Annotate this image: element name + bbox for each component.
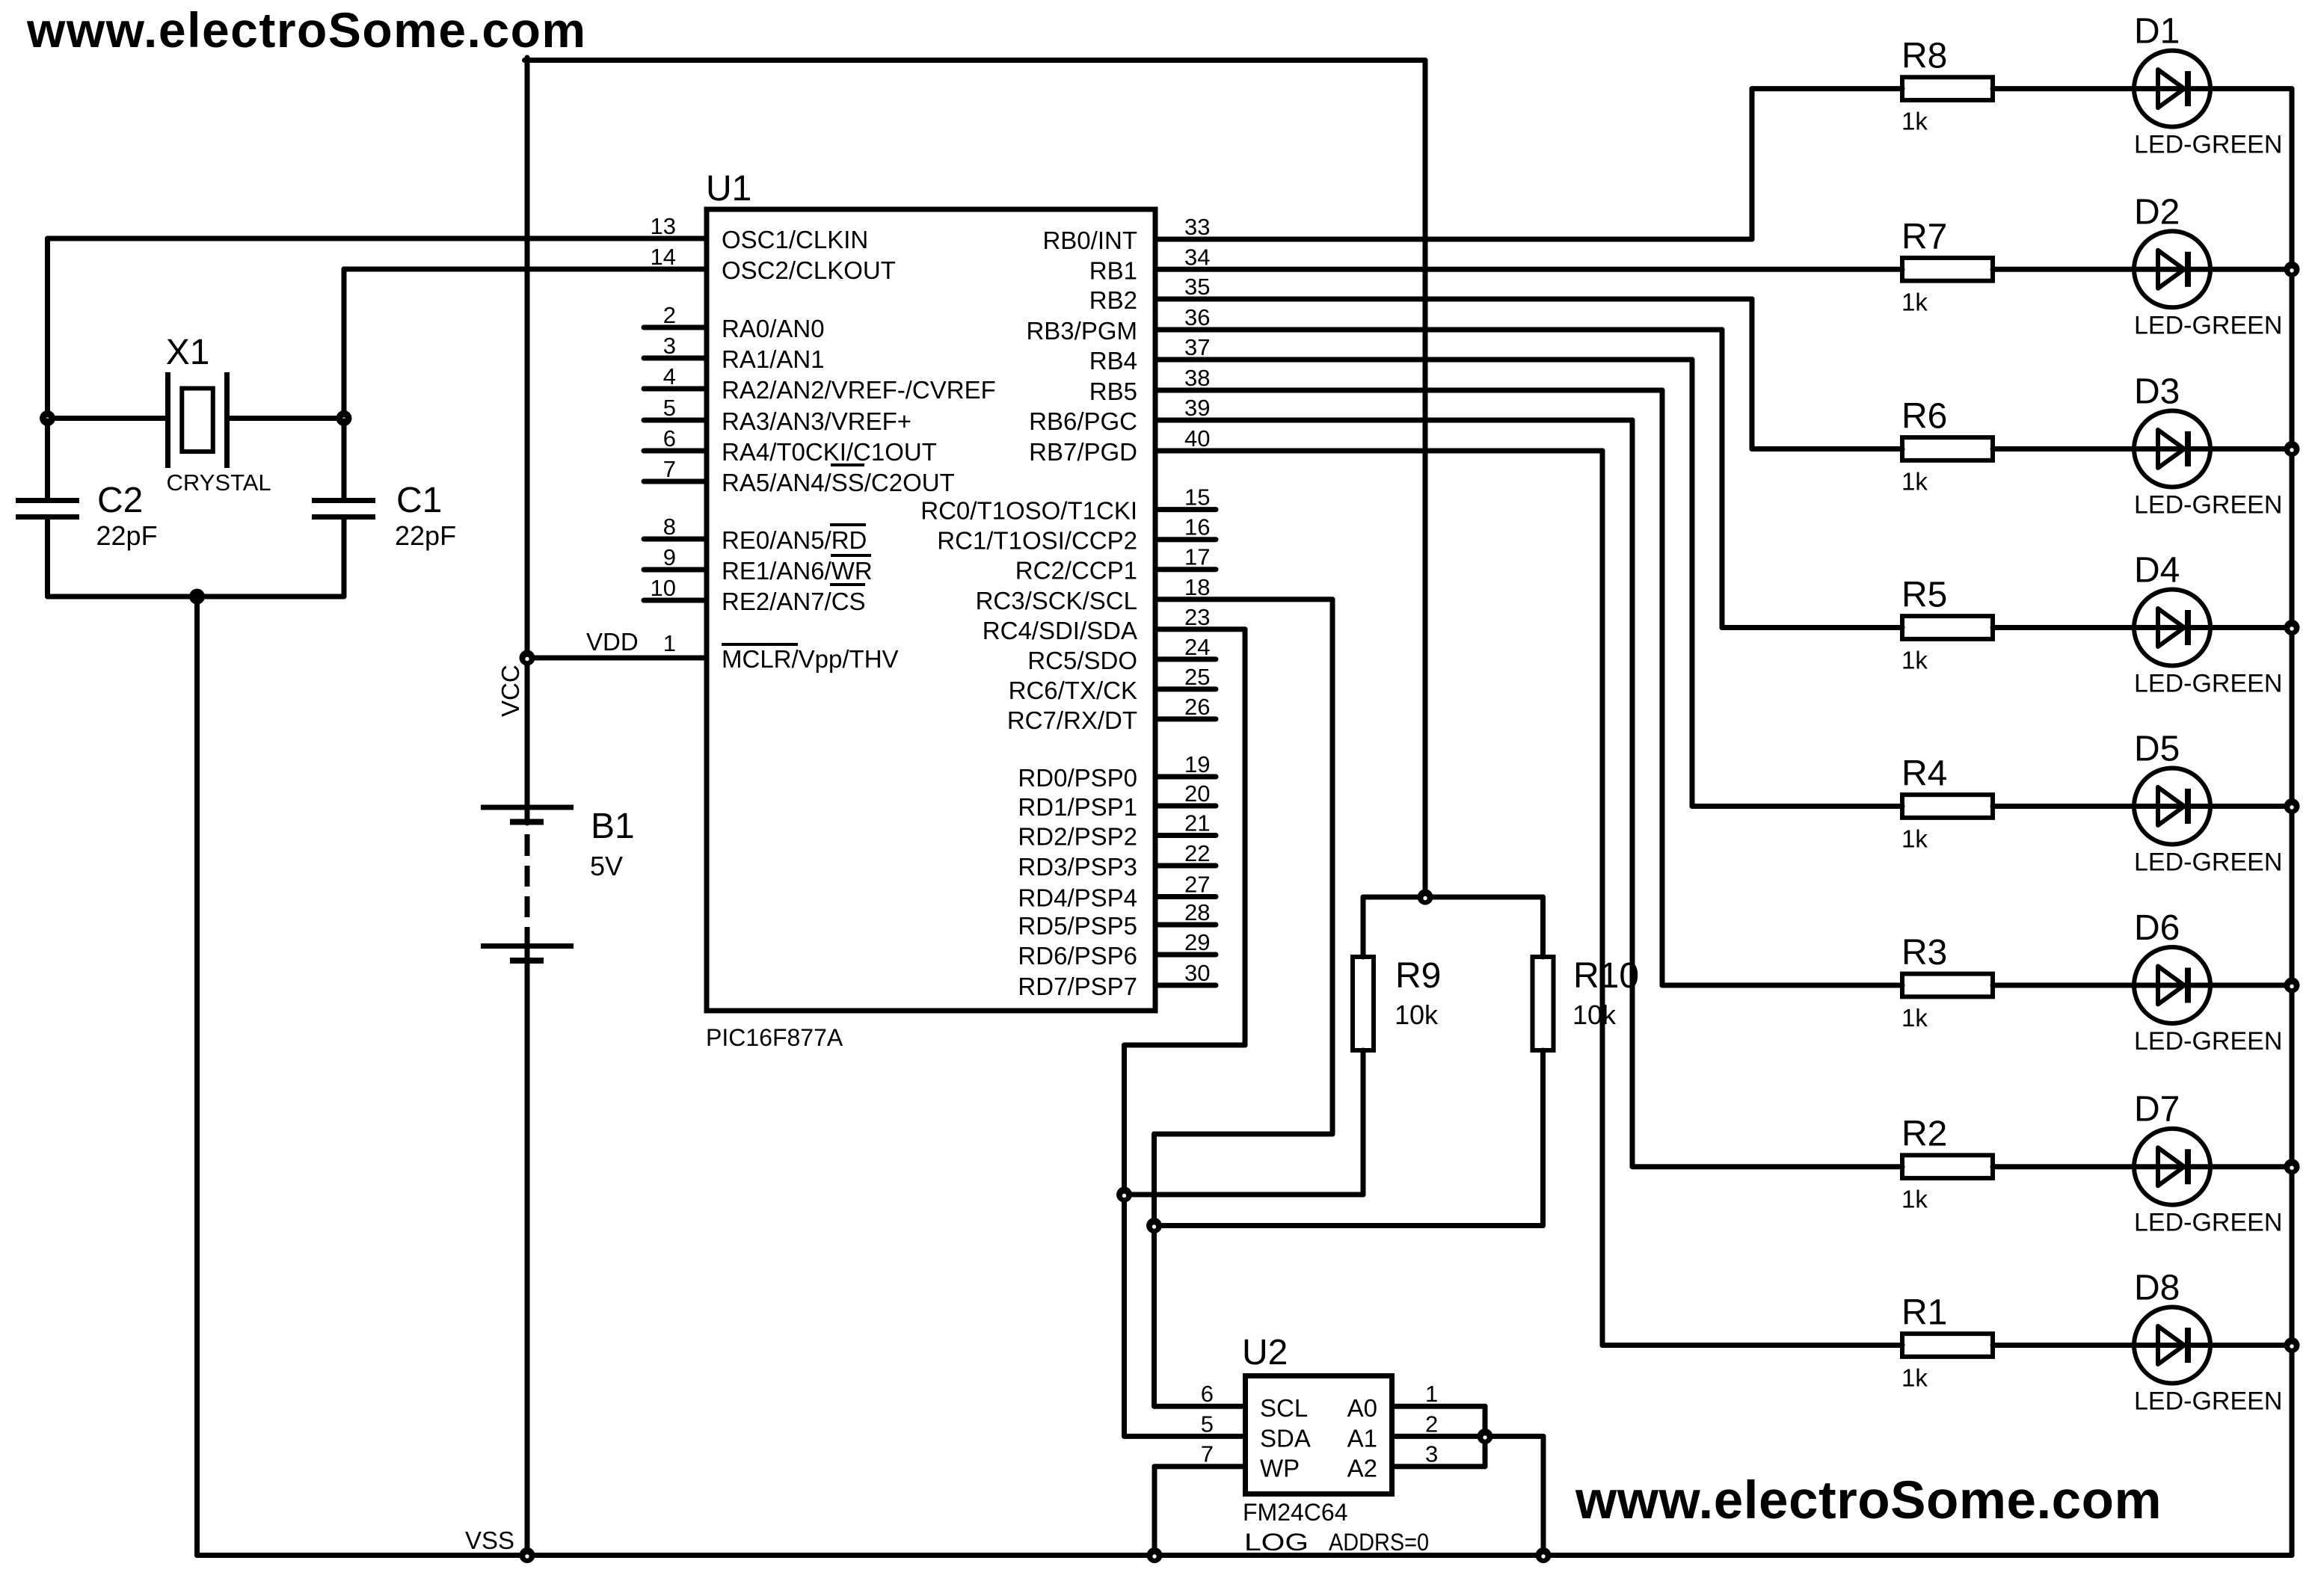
svg-text:1k: 1k <box>1901 1364 1928 1392</box>
wire pin 40 dropper <box>1600 451 1605 1346</box>
svg-text:1k: 1k <box>1901 1186 1928 1213</box>
svg-text:RB1: RB1 <box>1089 256 1137 284</box>
svg-text:RB4: RB4 <box>1089 347 1137 375</box>
svg-text:MCLR/Vpp/THV: MCLR/Vpp/THV <box>722 645 899 673</box>
svg-text:4: 4 <box>663 363 676 389</box>
wire pin 8 stub <box>644 537 704 542</box>
resistor R3 <box>1902 974 1993 997</box>
svg-text:RA0/AN0: RA0/AN0 <box>722 315 825 342</box>
svg-text:23: 23 <box>1184 604 1210 630</box>
svg-text:RA2/AN2/VREF-/CVREF: RA2/AN2/VREF-/CVREF <box>722 376 996 404</box>
wire R2 to D7 <box>1993 1164 2136 1169</box>
svg-text:1: 1 <box>663 630 676 656</box>
svg-text:LED-GREEN: LED-GREEN <box>2134 131 2282 159</box>
resistor R5 <box>1902 616 1993 639</box>
svg-text:RD4/PSP4: RD4/PSP4 <box>1018 884 1137 912</box>
node battery on VSS <box>520 1547 535 1563</box>
wire pin 38 dropper <box>1660 390 1665 985</box>
node A pins on VSS <box>1536 1547 1552 1563</box>
wire pin 19 stub <box>1158 774 1217 780</box>
wire pin 15 stub <box>1158 507 1217 512</box>
wire pin 2 stub <box>644 325 704 330</box>
svg-text:22pF: 22pF <box>96 520 158 551</box>
svg-text:RD7/PSP7: RD7/PSP7 <box>1018 973 1137 1000</box>
svg-text:33: 33 <box>1184 214 1210 240</box>
wire crystal right <box>230 416 344 421</box>
svg-text:38: 38 <box>1184 365 1210 391</box>
node R9 SDA junction <box>1116 1187 1132 1203</box>
wire VDD to pin 1 <box>527 656 704 661</box>
svg-text:RA4/T0CKI/C1OUT: RA4/T0CKI/C1OUT <box>722 438 937 466</box>
svg-text:1k: 1k <box>1901 825 1928 853</box>
svg-text:R7: R7 <box>1901 217 1947 256</box>
svg-text:RD6/PSP6: RD6/PSP6 <box>1018 942 1137 970</box>
svg-text:RC0/T1OSO/T1CKI: RC0/T1OSO/T1CKI <box>920 497 1137 525</box>
wire R1 row left <box>1602 1343 1902 1348</box>
svg-text:13: 13 <box>651 213 676 239</box>
wire pin 5 stub <box>644 418 704 423</box>
capacitor C2 <box>16 419 79 597</box>
wire VSS rail <box>197 1553 2293 1558</box>
svg-text:R5: R5 <box>1901 576 1947 615</box>
svg-text:RC2/CCP1: RC2/CCP1 <box>1015 557 1137 585</box>
overline CS in RE2 <box>830 583 865 586</box>
wire R4 row left <box>1692 804 1902 809</box>
svg-text:RB2: RB2 <box>1089 286 1137 314</box>
node WP on VSS <box>1147 1547 1163 1563</box>
svg-text:RA5/AN4/SS/C2OUT: RA5/AN4/SS/C2OUT <box>722 469 955 496</box>
wire WP to VSS <box>1152 1467 1157 1556</box>
wire crystal ground rail <box>48 594 345 600</box>
wire R7 row left <box>1158 267 1903 272</box>
wire pin 3 stub <box>644 356 704 361</box>
wire pin 16 stub <box>1158 537 1217 542</box>
svg-text:27: 27 <box>1184 872 1210 898</box>
overline SS in RA5 <box>831 463 864 466</box>
svg-text:17: 17 <box>1184 544 1210 570</box>
svg-text:RC7/RX/DT: RC7/RX/DT <box>1007 706 1137 734</box>
wire R6 to D3 <box>1993 446 2136 452</box>
wire SCL jog <box>1155 1132 1333 1137</box>
svg-text:15: 15 <box>1184 484 1210 511</box>
svg-text:B1: B1 <box>591 807 635 846</box>
node OSC2/C1 <box>336 410 352 426</box>
svg-text:A2: A2 <box>1347 1455 1377 1482</box>
svg-text:U2: U2 <box>1242 1333 1288 1372</box>
svg-text:RD3/PSP3: RD3/PSP3 <box>1018 853 1137 881</box>
wire R10 bottom lead <box>1540 1050 1546 1226</box>
resistor R2 <box>1902 1155 1993 1178</box>
wire pin 33 horizontal <box>1158 237 1753 242</box>
svg-text:R3: R3 <box>1901 933 1947 973</box>
svg-text:RB6/PGC: RB6/PGC <box>1029 407 1137 435</box>
svg-text:7: 7 <box>1201 1441 1214 1467</box>
svg-text:28: 28 <box>1184 899 1210 925</box>
svg-text:39: 39 <box>1184 395 1210 421</box>
wire pin 35 horizontal <box>1158 297 1753 302</box>
wire SCL into U2 pin 6 <box>1155 1404 1243 1409</box>
svg-text:FM24C64: FM24C64 <box>1243 1499 1348 1526</box>
svg-text:VCC: VCC <box>496 665 524 717</box>
wire pin 36 horizontal <box>1158 327 1723 333</box>
svg-text:3: 3 <box>1425 1441 1438 1467</box>
svg-text:5: 5 <box>663 395 676 421</box>
svg-text:D6: D6 <box>2134 908 2180 948</box>
svg-text:RC3/SCK/SCL: RC3/SCK/SCL <box>976 587 1137 614</box>
resistor R6 <box>1902 437 1993 460</box>
svg-text:1k: 1k <box>1901 468 1928 496</box>
node R10 SCL junction <box>1146 1218 1162 1233</box>
svg-text:LED-GREEN: LED-GREEN <box>2134 848 2282 877</box>
node crystal ground <box>189 589 205 605</box>
svg-text:1k: 1k <box>1901 647 1928 674</box>
wire pin 4 stub <box>644 386 704 392</box>
svg-text:6: 6 <box>1201 1381 1214 1407</box>
crystal X1 <box>168 372 227 468</box>
svg-text:29: 29 <box>1184 929 1210 955</box>
svg-text:R1: R1 <box>1901 1293 1947 1333</box>
svg-text:RC6/TX/CK: RC6/TX/CK <box>1009 677 1137 704</box>
wire pin 37 dropper <box>1690 360 1695 807</box>
svg-text:CRYSTAL: CRYSTAL <box>167 469 271 496</box>
svg-text:1k: 1k <box>1901 288 1928 315</box>
svg-text:SDA: SDA <box>1260 1424 1311 1452</box>
led D5 <box>2134 768 2292 845</box>
ic U2 FM24C64 body <box>1246 1376 1392 1494</box>
node D3 on bus <box>2284 441 2300 457</box>
svg-text:RB7/PGD: RB7/PGD <box>1029 438 1137 466</box>
svg-text:RA3/AN3/VREF+: RA3/AN3/VREF+ <box>722 407 911 435</box>
svg-text:A0: A0 <box>1347 1394 1377 1422</box>
svg-text:24: 24 <box>1184 634 1210 660</box>
wire R8 to D1 <box>1993 86 2136 91</box>
wire R5 to D4 <box>1993 625 2136 630</box>
svg-text:3: 3 <box>663 333 676 359</box>
svg-text:34: 34 <box>1184 244 1210 270</box>
wire R6 row left <box>1752 446 1902 452</box>
wire VCC vertical from top rail to battery <box>525 58 530 823</box>
svg-text:R8: R8 <box>1901 37 1947 76</box>
svg-text:OSC1/CLKIN: OSC1/CLKIN <box>722 226 868 253</box>
wire pin 6 stub <box>644 449 704 454</box>
wire pin 39 dropper <box>1630 420 1635 1167</box>
node VCC pull-up rail <box>1418 890 1433 905</box>
svg-text:36: 36 <box>1184 304 1210 330</box>
svg-text:2: 2 <box>663 302 676 328</box>
led D8 <box>2134 1307 2292 1384</box>
svg-text:RD1/PSP1: RD1/PSP1 <box>1018 793 1137 821</box>
svg-text:RD5/PSP5: RD5/PSP5 <box>1018 912 1137 940</box>
svg-text:PIC16F877A: PIC16F877A <box>706 1024 843 1051</box>
node OSC1/C2 <box>40 410 55 426</box>
svg-text:RE1/AN6/WR: RE1/AN6/WR <box>722 557 873 585</box>
wire pin 35 dropper <box>1750 299 1755 449</box>
svg-text:OSC2/CLKOUT: OSC2/CLKOUT <box>722 256 896 284</box>
svg-text:VSS: VSS <box>465 1526 514 1554</box>
svg-text:LOG: LOG <box>1244 1529 1309 1556</box>
svg-text:LED-GREEN: LED-GREEN <box>2134 1027 2282 1056</box>
led D3 <box>2134 411 2292 487</box>
svg-text:5V: 5V <box>590 851 623 881</box>
node A1 junction <box>1478 1429 1493 1444</box>
wire crystal left <box>48 416 166 421</box>
wire R10 top lead <box>1540 897 1546 957</box>
svg-text:10k: 10k <box>1572 999 1617 1030</box>
wire pin 17 stub <box>1158 567 1217 572</box>
svg-text:R6: R6 <box>1901 397 1947 437</box>
svg-text:5: 5 <box>1201 1411 1214 1437</box>
svg-text:22: 22 <box>1184 840 1210 866</box>
svg-text:16: 16 <box>1184 514 1210 540</box>
wire LED cathode bus <box>2290 89 2295 1556</box>
wire SDA jog <box>1125 1043 1246 1048</box>
wire pin 10 stub <box>644 598 704 603</box>
svg-text:1k: 1k <box>1901 108 1928 135</box>
wire R9 top lead <box>1361 897 1366 957</box>
node D4 on bus <box>2284 620 2300 635</box>
wire pin 23 horizontal <box>1158 626 1246 632</box>
overline MCLR <box>722 643 798 646</box>
wire R1 to D8 <box>1993 1343 2136 1348</box>
svg-text:D8: D8 <box>2134 1269 2180 1308</box>
wire VCC drop to pull-up rail <box>1423 61 1428 898</box>
led D1 <box>2134 51 2292 127</box>
svg-text:www.electroSome.com: www.electroSome.com <box>1575 1471 2162 1530</box>
overline WR in RE1 <box>831 554 871 557</box>
svg-text:8: 8 <box>663 514 676 540</box>
svg-text:2: 2 <box>1425 1411 1438 1437</box>
svg-text:LED-GREEN: LED-GREEN <box>2134 311 2282 339</box>
svg-text:21: 21 <box>1184 810 1210 836</box>
svg-text:LED-GREEN: LED-GREEN <box>2134 1387 2282 1416</box>
wire pin 28 stub <box>1158 922 1217 928</box>
wire pin 18 horizontal <box>1158 597 1333 602</box>
wire OSC2 vertical <box>342 269 347 419</box>
wire R10 to SCL <box>1155 1223 1543 1228</box>
wire pin 27 stub <box>1158 894 1217 899</box>
svg-text:U1: U1 <box>706 169 751 209</box>
svg-text:26: 26 <box>1184 694 1210 720</box>
svg-text:1k: 1k <box>1901 1004 1928 1032</box>
svg-text:10: 10 <box>651 575 676 601</box>
overline RD in RE0 <box>830 523 866 526</box>
node D8 on bus <box>2284 1337 2300 1353</box>
resistor R4 <box>1902 795 1993 818</box>
svg-text:RB5: RB5 <box>1089 378 1137 405</box>
wire pin 7 stub <box>644 479 704 484</box>
wire R4 to D5 <box>1993 804 2136 809</box>
node D6 on bus <box>2284 978 2300 993</box>
svg-text:www.electroSome.com: www.electroSome.com <box>26 2 587 58</box>
svg-text:10k: 10k <box>1395 999 1439 1030</box>
led D7 <box>2134 1129 2292 1205</box>
node D2 on bus <box>2284 262 2300 277</box>
wire A1 to VSS <box>1541 1436 1546 1555</box>
wire pin 22 stub <box>1158 863 1217 869</box>
svg-text:RE2/AN7/CS: RE2/AN7/CS <box>722 588 866 615</box>
wire pin 30 stub <box>1158 983 1217 988</box>
node D7 on bus <box>2284 1159 2300 1174</box>
wire pin 33 riser <box>1750 89 1755 239</box>
svg-text:25: 25 <box>1184 664 1210 690</box>
svg-text:RA1/AN1: RA1/AN1 <box>722 345 825 373</box>
wire R8 row left <box>1752 86 1902 91</box>
wire pin 9 stub <box>644 567 704 573</box>
svg-text:14: 14 <box>651 244 676 270</box>
wire SCL vertical <box>1152 1134 1157 1406</box>
wire pin 26 stub <box>1158 716 1217 721</box>
wire pin 40 horizontal <box>1158 449 1603 454</box>
wire ground drop to VSS <box>194 597 200 1556</box>
wire OSC2 horizontal to chip <box>344 267 704 272</box>
svg-text:1: 1 <box>1425 1381 1438 1407</box>
svg-text:D3: D3 <box>2134 372 2180 412</box>
wire pin 24 stub <box>1158 656 1217 662</box>
wire R5 row left <box>1722 625 1902 630</box>
wire R9 bottom lead <box>1361 1050 1366 1195</box>
svg-text:LED-GREEN: LED-GREEN <box>2134 491 2282 520</box>
svg-text:R9: R9 <box>1395 956 1441 996</box>
wire OSC1 vertical <box>45 238 50 419</box>
wire WP stub <box>1155 1464 1243 1469</box>
wire A0 stub <box>1395 1404 1485 1409</box>
svg-text:LED-GREEN: LED-GREEN <box>2134 1209 2282 1237</box>
wire SDA vertical <box>1122 1045 1127 1436</box>
wire R2 row left <box>1632 1164 1902 1169</box>
resistor R1 <box>1902 1334 1993 1357</box>
wire pin 37 horizontal <box>1158 357 1693 363</box>
node VDD junction <box>520 650 535 666</box>
svg-text:D4: D4 <box>2134 551 2180 591</box>
svg-text:R4: R4 <box>1901 754 1947 794</box>
wire R9 to SDA <box>1125 1192 1364 1198</box>
wire battery minus to VSS <box>525 943 530 1556</box>
wire pin 39 horizontal <box>1158 418 1633 423</box>
svg-text:RD2/PSP2: RD2/PSP2 <box>1018 823 1137 851</box>
svg-text:19: 19 <box>1184 751 1210 777</box>
wire pin 23 dropper <box>1243 629 1248 1045</box>
svg-text:22pF: 22pF <box>395 520 456 551</box>
svg-text:20: 20 <box>1184 780 1210 807</box>
svg-text:D2: D2 <box>2134 192 2180 232</box>
led D4 <box>2134 590 2292 666</box>
wire R3 to D6 <box>1993 983 2136 988</box>
resistor R10 <box>1533 957 1554 1050</box>
ic U1 PIC16F877A body <box>707 209 1155 1011</box>
svg-text:VDD: VDD <box>586 628 639 656</box>
svg-text:SCL: SCL <box>1260 1394 1308 1422</box>
resistor R9 <box>1353 957 1374 1050</box>
wire A0-A2 tie <box>1483 1406 1488 1467</box>
node D5 on bus <box>2284 798 2300 814</box>
svg-text:37: 37 <box>1184 334 1210 360</box>
wire pin 29 stub <box>1158 952 1217 958</box>
svg-text:LED-GREEN: LED-GREEN <box>2134 670 2282 698</box>
svg-text:R2: R2 <box>1901 1115 1947 1154</box>
battery B1 <box>481 807 574 961</box>
svg-text:WP: WP <box>1260 1455 1300 1482</box>
wire A2 stub <box>1395 1464 1485 1469</box>
svg-text:30: 30 <box>1184 960 1210 986</box>
wire pull-up top rail <box>1363 895 1543 900</box>
resistor R7 <box>1902 258 1993 281</box>
wire VCC top horizontal <box>525 58 1426 63</box>
wire R3 row left <box>1662 983 1902 988</box>
svg-text:RB3/PGM: RB3/PGM <box>1026 317 1137 345</box>
svg-text:6: 6 <box>663 425 676 452</box>
led D2 <box>2134 231 2292 307</box>
svg-text:D5: D5 <box>2134 730 2180 769</box>
svg-text:RD0/PSP0: RD0/PSP0 <box>1018 764 1137 792</box>
wire SDA into U2 pin 5 <box>1125 1434 1243 1439</box>
wire pin 25 stub <box>1158 686 1217 691</box>
svg-text:RC5/SDO: RC5/SDO <box>1027 647 1137 674</box>
led D6 <box>2134 947 2292 1023</box>
svg-text:RC1/T1OSI/CCP2: RC1/T1OSI/CCP2 <box>937 527 1137 555</box>
wire pin 20 stub <box>1158 804 1217 809</box>
wire OSC1 horizontal to chip <box>48 236 704 241</box>
svg-text:ADDRS=0: ADDRS=0 <box>1329 1529 1429 1556</box>
svg-text:C2: C2 <box>97 481 143 520</box>
svg-text:7: 7 <box>663 456 676 482</box>
svg-text:R10: R10 <box>1573 956 1639 996</box>
svg-text:RB0/INT: RB0/INT <box>1042 227 1137 254</box>
svg-text:9: 9 <box>663 544 676 570</box>
wire A1 stub <box>1395 1434 1543 1439</box>
wire pin 18 dropper <box>1330 600 1335 1134</box>
svg-text:18: 18 <box>1184 574 1210 600</box>
wire pin 36 dropper <box>1720 330 1725 628</box>
wire R7 to D2 <box>1993 267 2136 272</box>
svg-text:A1: A1 <box>1347 1424 1377 1452</box>
svg-text:40: 40 <box>1184 425 1210 452</box>
svg-text:35: 35 <box>1184 274 1210 300</box>
capacitor C1 <box>312 419 375 597</box>
svg-text:D1: D1 <box>2134 12 2180 52</box>
resistor R8 <box>1902 77 1993 100</box>
svg-text:X1: X1 <box>166 333 210 372</box>
svg-text:C1: C1 <box>396 481 442 520</box>
svg-text:RE0/AN5/RD: RE0/AN5/RD <box>722 526 867 554</box>
svg-text:RC4/SDI/SDA: RC4/SDI/SDA <box>983 617 1137 644</box>
wire pin 38 horizontal <box>1158 388 1663 393</box>
wire pin 21 stub <box>1158 833 1217 838</box>
svg-text:D7: D7 <box>2134 1090 2180 1130</box>
